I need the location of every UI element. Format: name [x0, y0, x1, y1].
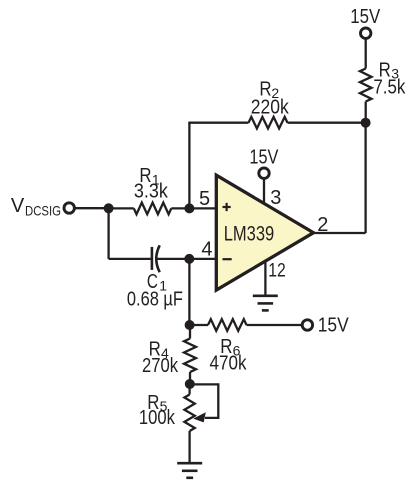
wire node C down to node D: [188, 259, 190, 325]
wire output pin 2: [314, 232, 366, 234]
svg-text:2: 2: [317, 214, 328, 236]
resistor R1: [134, 203, 172, 215]
wire node B to pin 5: [189, 207, 216, 209]
ground bottom: [177, 462, 202, 465]
wire R5 to ground: [188, 431, 190, 463]
svg-text:V: V: [11, 195, 25, 217]
wire R4 to node E: [189, 372, 191, 384]
wire terminal to node A: [74, 207, 108, 209]
resistor R6: [208, 319, 247, 331]
resistor R4: [184, 339, 196, 373]
svg-text:15V: 15V: [249, 147, 279, 169]
wire R6 to 15V terminal: [247, 324, 303, 326]
node B noninverting junction: [184, 203, 194, 213]
svg-text:DCSIG: DCSIG: [25, 203, 61, 219]
svg-text:15V: 15V: [350, 6, 381, 28]
node A input junction: [104, 203, 114, 213]
wire C1 to node C: [158, 258, 190, 260]
wiper connection wire: [191, 384, 218, 418]
svg-text:220k: 220k: [251, 96, 290, 118]
terminal 15V right: [302, 320, 312, 330]
wire node to R2: [288, 122, 366, 124]
svg-text:0.68 µF: 0.68 µF: [127, 288, 183, 310]
svg-text:7.5k: 7.5k: [373, 76, 406, 98]
node C inverting junction: [184, 254, 194, 264]
svg-text:12: 12: [268, 261, 286, 282]
resistor R2: [249, 117, 288, 129]
wire node D to R6: [190, 324, 208, 326]
wire 15V to R3: [365, 38, 367, 68]
resistor R3: [360, 69, 372, 102]
terminal V_DCSIG: [64, 203, 74, 213]
wire pin 12: [264, 262, 266, 296]
potentiometer R5: [184, 395, 194, 432]
terminal 15V pin 3: [259, 168, 269, 178]
wire pin 3: [263, 178, 265, 203]
svg-text:15V: 15V: [318, 315, 350, 337]
wire node A down: [107, 208, 109, 259]
wire output up to node: [364, 123, 366, 233]
wire R2 to corner: [188, 122, 248, 124]
svg-text:270k: 270k: [142, 355, 179, 377]
wire to C1: [109, 258, 151, 260]
svg-text:100k: 100k: [139, 407, 176, 429]
svg-text:470k: 470k: [210, 353, 248, 375]
wire node E to R5: [188, 384, 190, 395]
svg-text:3.3k: 3.3k: [134, 181, 169, 203]
wiper arrowhead: [193, 412, 206, 422]
ground pin 12: [253, 294, 278, 297]
wire R1 to node B: [171, 207, 189, 209]
svg-text:4: 4: [201, 239, 212, 261]
terminal 15V top: [361, 28, 371, 38]
wire R3 to node: [365, 102, 367, 123]
capacitor C1 right plate: [156, 245, 159, 272]
node D divider junction: [185, 320, 195, 330]
op-amp U1 LM339 body: [216, 175, 313, 290]
node R2-R3-output junction: [361, 118, 371, 128]
svg-text:3: 3: [270, 187, 281, 209]
wire node D to R4: [189, 325, 191, 339]
op-amp plus sign: [223, 206, 231, 208]
capacitor C1 left plate: [151, 247, 154, 270]
node E wiper junction: [185, 379, 195, 389]
svg-text:5: 5: [199, 188, 210, 210]
svg-text:LM339: LM339: [224, 223, 275, 246]
wire node C to pin 4: [189, 258, 216, 260]
op-amp minus sign: [223, 258, 232, 260]
wire feedback corner down to + node: [188, 123, 190, 209]
wire node A to R1: [109, 207, 134, 209]
